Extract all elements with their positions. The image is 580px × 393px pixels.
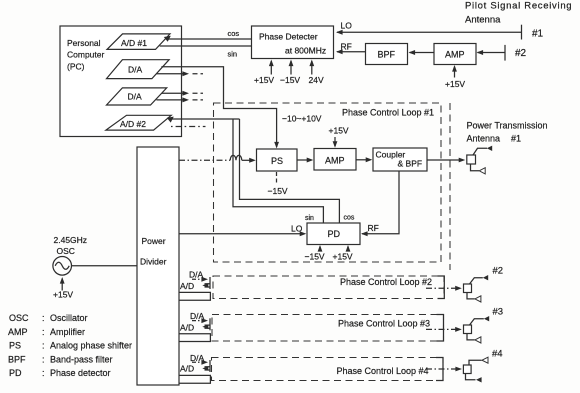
svg-text:PS: PS bbox=[9, 341, 21, 351]
svg-text:#1: #1 bbox=[511, 134, 521, 144]
svg-text:Phase Detecter: Phase Detecter bbox=[259, 32, 318, 42]
svg-text:PS: PS bbox=[271, 156, 283, 166]
svg-text:D/A: D/A bbox=[190, 353, 205, 363]
svg-text:−15V: −15V bbox=[268, 186, 288, 196]
svg-text:2.45GHz: 2.45GHz bbox=[54, 235, 88, 245]
svg-text:LO: LO bbox=[291, 224, 303, 234]
svg-text:PD: PD bbox=[9, 368, 22, 378]
svg-text:Band-pass filter: Band-pass filter bbox=[50, 354, 113, 364]
svg-text:AMP: AMP bbox=[325, 156, 345, 166]
svg-text:BPF: BPF bbox=[8, 354, 26, 364]
svg-text::: : bbox=[42, 313, 45, 323]
svg-text:AMP: AMP bbox=[445, 50, 465, 60]
svg-text:D/A: D/A bbox=[128, 65, 143, 75]
svg-text:D/A: D/A bbox=[190, 311, 205, 321]
svg-text:Pilot Signal Receiving: Pilot Signal Receiving bbox=[465, 1, 572, 12]
svg-text:24V: 24V bbox=[309, 75, 324, 85]
svg-text::: : bbox=[42, 327, 45, 337]
svg-text:A/D #2: A/D #2 bbox=[120, 119, 146, 129]
svg-text:A/D #1: A/D #1 bbox=[121, 38, 147, 48]
svg-text:Power: Power bbox=[142, 236, 166, 246]
svg-text:+15V: +15V bbox=[53, 290, 73, 300]
svg-text:LO: LO bbox=[341, 21, 353, 31]
svg-text:Phase detector: Phase detector bbox=[50, 368, 111, 378]
svg-text:AMP: AMP bbox=[8, 327, 28, 337]
svg-text:+15V: +15V bbox=[329, 126, 349, 136]
svg-text:Antenna: Antenna bbox=[467, 134, 501, 144]
svg-text:RF: RF bbox=[368, 223, 379, 233]
svg-text:A/D: A/D bbox=[180, 364, 194, 374]
svg-text:& BPF: & BPF bbox=[398, 159, 423, 169]
svg-text:Phase Control Loop #4: Phase Control Loop #4 bbox=[337, 366, 429, 376]
svg-text:#2: #2 bbox=[493, 266, 504, 277]
svg-text:Amplifier: Amplifier bbox=[50, 327, 85, 337]
svg-text:−10~+10V: −10~+10V bbox=[282, 114, 322, 124]
svg-text:Phase Control Loop #3: Phase Control Loop #3 bbox=[338, 319, 430, 329]
svg-text:(PC): (PC) bbox=[67, 62, 85, 72]
svg-text:OSC: OSC bbox=[57, 246, 75, 256]
svg-text:RF: RF bbox=[341, 42, 352, 52]
svg-text:Antenna: Antenna bbox=[465, 15, 501, 26]
svg-text:D/A: D/A bbox=[189, 270, 204, 280]
svg-text:Power Transmission: Power Transmission bbox=[467, 121, 548, 131]
svg-text:sin: sin bbox=[305, 215, 314, 222]
svg-text:at 800MHz: at 800MHz bbox=[285, 46, 326, 56]
svg-text:Computer: Computer bbox=[67, 50, 104, 60]
svg-text:cos: cos bbox=[344, 215, 355, 222]
svg-text:−15V: −15V bbox=[280, 75, 300, 85]
svg-text:BPF: BPF bbox=[378, 50, 396, 60]
svg-text:OSC: OSC bbox=[9, 313, 29, 323]
svg-text:+15V: +15V bbox=[254, 75, 274, 85]
svg-text:Phase Control Loop #1: Phase Control Loop #1 bbox=[342, 108, 434, 118]
svg-text:+15V: +15V bbox=[333, 252, 353, 262]
svg-text::: : bbox=[42, 368, 45, 378]
svg-text:+15V: +15V bbox=[445, 79, 465, 89]
svg-text:D/A: D/A bbox=[128, 92, 143, 102]
svg-text:sin: sin bbox=[228, 50, 238, 59]
svg-text:cos: cos bbox=[228, 29, 240, 38]
svg-text:#1: #1 bbox=[532, 29, 544, 40]
svg-text:Oscillator: Oscillator bbox=[50, 313, 88, 323]
svg-text:A/D: A/D bbox=[180, 323, 194, 333]
svg-text::: : bbox=[42, 341, 45, 351]
svg-text:Divider: Divider bbox=[140, 257, 167, 267]
svg-text:A/D: A/D bbox=[180, 281, 194, 291]
svg-text::: : bbox=[42, 354, 45, 364]
svg-text:Phase Control Loop #2: Phase Control Loop #2 bbox=[340, 277, 432, 287]
svg-text:#3: #3 bbox=[493, 307, 504, 318]
svg-text:Analog phase shifter: Analog phase shifter bbox=[50, 341, 132, 351]
svg-text:PD: PD bbox=[328, 229, 341, 239]
svg-text:#4: #4 bbox=[492, 349, 503, 360]
svg-text:#2: #2 bbox=[515, 48, 527, 59]
svg-text:Personal: Personal bbox=[67, 38, 101, 48]
svg-text:−15V: −15V bbox=[305, 252, 325, 262]
